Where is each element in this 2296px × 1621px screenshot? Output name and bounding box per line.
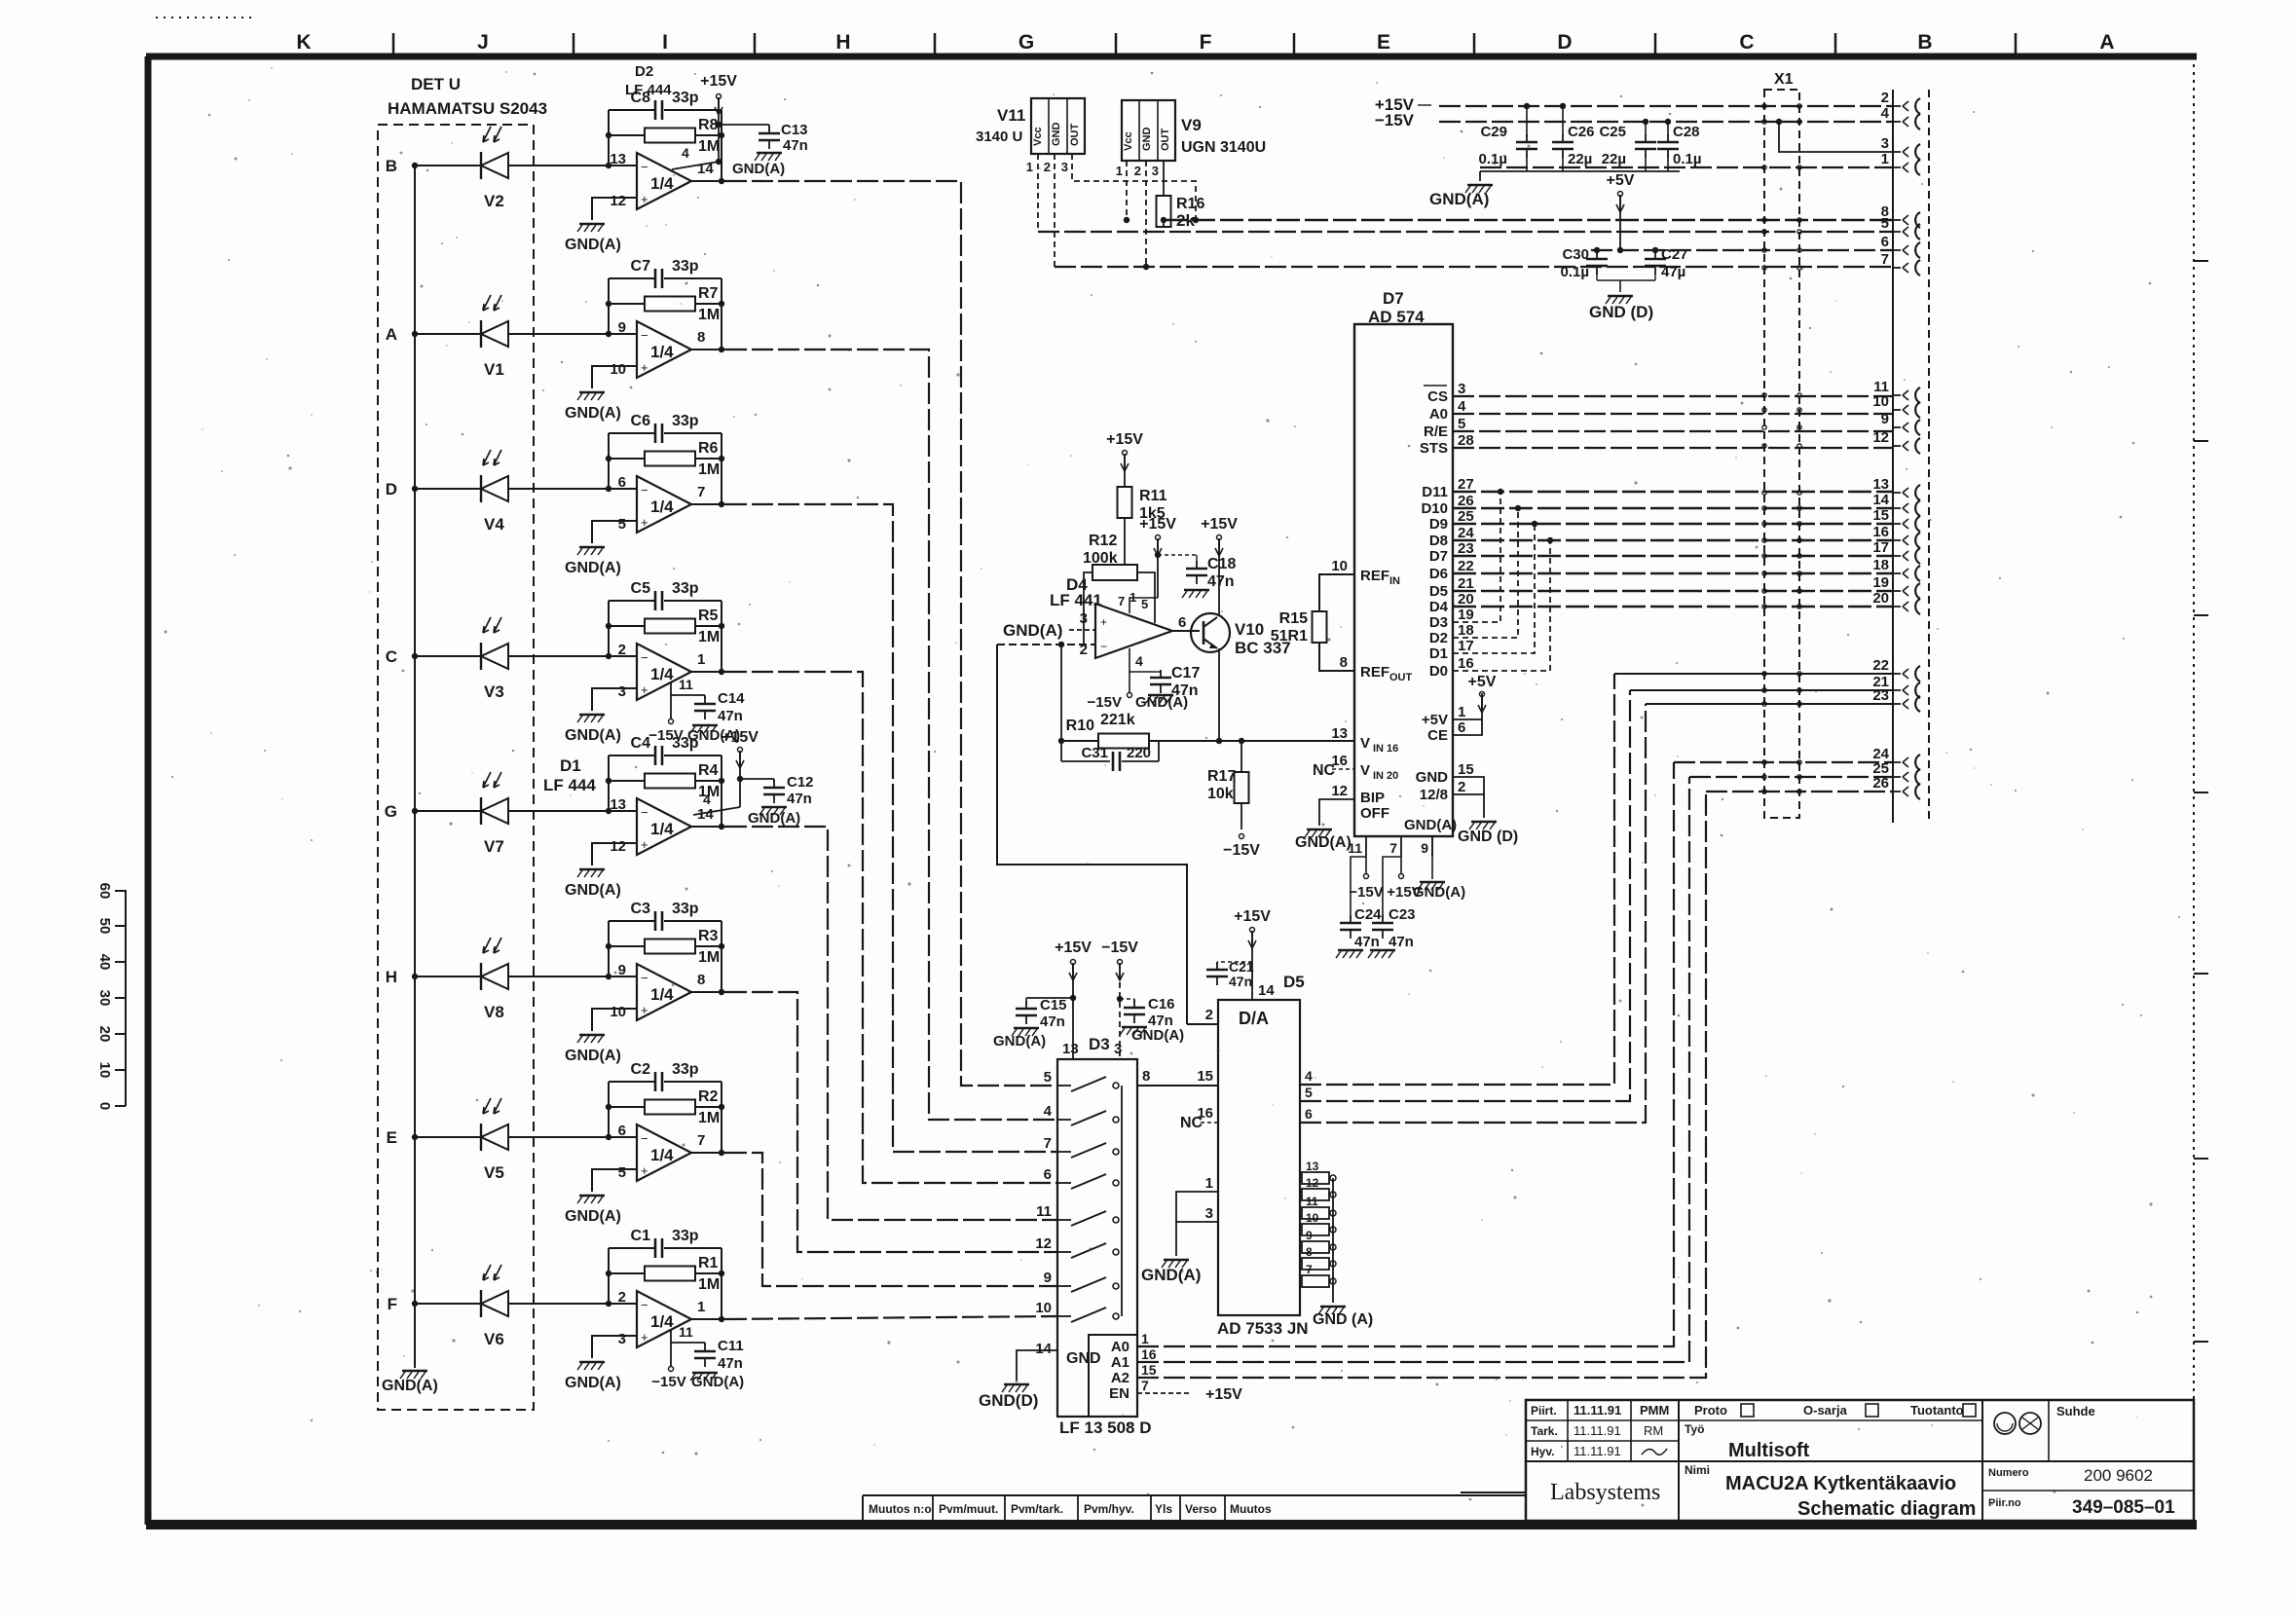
svg-text:D8: D8 — [1429, 533, 1448, 549]
svg-text:7: 7 — [697, 484, 705, 500]
ground GND(A) — [1014, 1027, 1039, 1030]
svg-text:−15V: −15V — [651, 1374, 685, 1390]
ground — [1184, 589, 1209, 592]
wire — [592, 198, 637, 220]
op-amp V4 stage — [637, 476, 691, 533]
svg-text:K: K — [296, 31, 311, 54]
svg-text:23: 23 — [1872, 687, 1889, 704]
svg-text:+: + — [641, 1163, 648, 1178]
wire V10 emitter down — [1218, 648, 1220, 741]
svg-text:2: 2 — [1044, 160, 1051, 174]
svg-text:13: 13 — [610, 151, 626, 167]
svg-text:D3: D3 — [1089, 1035, 1110, 1053]
svg-text:16: 16 — [1331, 753, 1348, 769]
svg-text:+: + — [641, 515, 648, 530]
svg-text:9: 9 — [1881, 411, 1889, 427]
power -15V stage8 — [670, 1343, 672, 1366]
svg-text:12: 12 — [1872, 429, 1889, 446]
connector X1 pin 18 — [1893, 572, 1901, 574]
svg-text:11.11.91: 11.11.91 — [1574, 1403, 1621, 1418]
svg-text:−15V: −15V — [1101, 939, 1138, 956]
bus wire to connector 23 — [1646, 703, 1893, 705]
wire output — [691, 1152, 725, 1154]
rail to connector 1 — [1480, 166, 1893, 168]
svg-text:Vcc: Vcc — [1123, 131, 1134, 151]
ground GND(A) — [579, 868, 605, 871]
svg-text:47n: 47n — [1040, 1013, 1065, 1030]
svg-text:GND(A): GND(A) — [565, 1048, 621, 1064]
svg-text:+15V: +15V — [722, 729, 759, 746]
svg-text:3: 3 — [1152, 164, 1159, 178]
svg-text:D4: D4 — [1429, 599, 1449, 615]
wire — [592, 843, 637, 866]
svg-text:11: 11 — [679, 1324, 693, 1340]
svg-text:A: A — [386, 325, 397, 344]
svg-text:1M: 1M — [698, 1276, 720, 1293]
wire — [415, 655, 481, 657]
D7 pin 7 to +15V and C23 — [1383, 857, 1401, 919]
svg-text:A0: A0 — [1429, 406, 1448, 423]
svg-text:C16: C16 — [1148, 996, 1175, 1013]
svg-text:C29: C29 — [1480, 124, 1507, 140]
svg-text:33p: 33p — [672, 1061, 699, 1078]
wire op-amp output to mux — [725, 1153, 1057, 1286]
svg-text:16: 16 — [1458, 655, 1474, 672]
svg-text:LF 444: LF 444 — [625, 82, 672, 98]
wire output — [691, 671, 725, 673]
svg-text:10: 10 — [610, 361, 626, 378]
svg-text:19: 19 — [1872, 574, 1889, 591]
connector X1 pin 11 — [1893, 394, 1901, 396]
svg-text:5: 5 — [618, 516, 626, 533]
svg-text:GND(A): GND(A) — [565, 405, 621, 422]
svg-text:R12: R12 — [1089, 533, 1117, 549]
svg-text:D2: D2 — [1429, 630, 1448, 646]
svg-text:V: V — [1360, 735, 1370, 752]
svg-text:C12: C12 — [787, 774, 814, 791]
svg-text:Hyv.: Hyv. — [1531, 1445, 1554, 1458]
svg-text:−15V: −15V — [1223, 842, 1260, 859]
svg-text:−15V: −15V — [1349, 884, 1383, 901]
svg-text:G: G — [385, 802, 397, 821]
DAC D5 AD7533JN — [1218, 1000, 1300, 1315]
svg-text:6: 6 — [1305, 1106, 1313, 1122]
svg-text:1: 1 — [1881, 151, 1889, 167]
svg-text:Pvm/tark.: Pvm/tark. — [1011, 1502, 1063, 1516]
bus wire to connector 26 — [1706, 791, 1893, 792]
ground GND(A) — [579, 714, 605, 717]
connector X1 pin 13 — [1893, 492, 1901, 494]
svg-text:1/4: 1/4 — [650, 1312, 674, 1331]
svg-text:200 9602: 200 9602 — [2084, 1466, 2153, 1485]
connector X1 pin 3 — [1893, 151, 1901, 153]
capacitor C26 22u — [1562, 106, 1564, 136]
D7 pin 11 to -15V and C24 — [1351, 857, 1366, 919]
wire — [415, 165, 481, 166]
capacitor C18 47n — [1158, 554, 1197, 556]
ground — [1370, 949, 1395, 952]
wire long loop to DAC pin 2 — [997, 645, 1187, 1024]
svg-text:V3: V3 — [484, 682, 504, 701]
capacitor C6 33p — [609, 432, 654, 434]
svg-text:4: 4 — [1135, 653, 1143, 669]
svg-text:AD 7533 JN: AD 7533 JN — [1217, 1319, 1309, 1338]
svg-text:9: 9 — [618, 962, 626, 978]
svg-text:1: 1 — [1141, 1331, 1149, 1346]
D7 pin 9 to GND(A) — [1431, 836, 1433, 879]
connector X1 pin 12 — [1893, 445, 1901, 447]
svg-text:10: 10 — [1035, 1300, 1052, 1316]
svg-text:+15V: +15V — [1106, 431, 1143, 448]
svg-text:23: 23 — [1458, 540, 1474, 557]
svg-text:−: − — [641, 483, 648, 497]
svg-text:GND(A): GND(A) — [565, 1208, 621, 1225]
svg-text:GND(A): GND(A) — [1404, 817, 1457, 833]
connector X1 pin 23 — [1893, 703, 1901, 705]
svg-text:12: 12 — [1306, 1176, 1319, 1190]
svg-text:1/4: 1/4 — [650, 343, 674, 361]
capacitor C25 22u — [1645, 122, 1647, 136]
svg-text:H: H — [386, 968, 397, 986]
svg-text:1M: 1M — [698, 307, 720, 323]
svg-text:C31: C31 — [1081, 745, 1108, 761]
svg-text:14: 14 — [1258, 982, 1275, 999]
svg-text:2: 2 — [618, 642, 626, 658]
svg-text:REF: REF — [1360, 568, 1389, 584]
wire op-amp output to mux — [725, 504, 1057, 1152]
wire V11 pin1 to bus 5 — [1037, 154, 1039, 232]
svg-text:D11: D11 — [1422, 484, 1448, 500]
svg-text:3: 3 — [1205, 1205, 1213, 1222]
svg-text:GND(A): GND(A) — [565, 882, 621, 899]
svg-text:GND(A): GND(A) — [1003, 621, 1062, 640]
photodiode V2 — [480, 152, 482, 179]
svg-text:R5: R5 — [698, 608, 719, 624]
svg-text:3: 3 — [618, 683, 626, 700]
svg-text:OUT: OUT — [1389, 672, 1413, 683]
border frame — [146, 54, 2197, 60]
svg-text:D10: D10 — [1421, 500, 1448, 517]
svg-text:D: D — [386, 480, 397, 498]
svg-text:Multisoft: Multisoft — [1728, 1440, 1810, 1461]
bus wire to connector 21 — [1630, 689, 1893, 691]
svg-text:26: 26 — [1458, 493, 1474, 509]
svg-text:3: 3 — [1458, 381, 1465, 397]
wire — [508, 1303, 637, 1305]
ground GND(A) — [579, 1361, 605, 1364]
ground GND(A) — [579, 1034, 605, 1037]
svg-text:GND(A): GND(A) — [732, 161, 785, 177]
connector X1 pin 1 — [1893, 166, 1901, 168]
svg-text:1: 1 — [1458, 704, 1465, 720]
wire V9 pin3 to R16 — [1163, 161, 1165, 196]
svg-text:−: − — [1100, 640, 1107, 653]
svg-text:V: V — [1360, 762, 1370, 779]
svg-text:2: 2 — [1134, 164, 1141, 178]
svg-text:GND(A): GND(A) — [1131, 1027, 1184, 1044]
svg-text:C26: C26 — [1568, 124, 1595, 140]
svg-text:−: − — [641, 328, 648, 343]
svg-text:27: 27 — [1458, 476, 1474, 493]
ground GND(A) — [1148, 694, 1173, 697]
svg-text:IN 16: IN 16 — [1373, 743, 1398, 755]
svg-text:C: C — [386, 647, 397, 666]
svg-text:28: 28 — [1458, 432, 1474, 449]
wire output — [691, 826, 725, 828]
svg-text:Suhde: Suhde — [2056, 1404, 2095, 1418]
svg-text:47n: 47n — [1207, 573, 1235, 590]
svg-text:C2: C2 — [631, 1061, 651, 1078]
svg-text:C6: C6 — [631, 413, 651, 429]
svg-text:C27: C27 — [1661, 246, 1688, 263]
wire feedback — [608, 433, 610, 489]
svg-text:+15V: +15V — [1201, 516, 1238, 533]
svg-text:GND (D): GND (D) — [1458, 829, 1518, 845]
svg-text:10k: 10k — [1207, 786, 1234, 802]
svg-text:14: 14 — [1872, 492, 1889, 508]
detector common bus wire — [414, 166, 416, 1368]
wire — [592, 521, 637, 543]
svg-text:1/4: 1/4 — [650, 985, 674, 1004]
connector X1 pin 20 — [1893, 606, 1901, 608]
svg-text:10: 10 — [610, 1004, 626, 1020]
resistor R7 1M — [609, 303, 645, 305]
svg-text:20: 20 — [1458, 591, 1474, 608]
capacitor C14 47n — [704, 695, 706, 698]
wire — [415, 488, 481, 490]
wire op-amp pin4 stage5 — [693, 807, 740, 815]
wire feedback — [608, 1082, 610, 1137]
capacitor C27 47u — [1654, 250, 1656, 255]
svg-text:1: 1 — [697, 651, 705, 668]
wire — [508, 165, 637, 166]
wire feedback — [608, 755, 610, 811]
svg-text:D1: D1 — [560, 756, 581, 775]
connector X1 pin 9 — [1893, 426, 1901, 428]
wire V11 pin3 jog — [1072, 154, 1196, 220]
svg-text:C14: C14 — [718, 690, 745, 707]
svg-text:33p: 33p — [672, 580, 699, 597]
svg-text:R15: R15 — [1279, 610, 1308, 627]
svg-text:+: + — [641, 1330, 648, 1345]
svg-text:C24: C24 — [1354, 906, 1382, 923]
connector X1 pin 14 — [1893, 507, 1901, 509]
bus wire to connector 25 — [1689, 776, 1893, 778]
svg-text:+5V: +5V — [1422, 712, 1448, 728]
svg-text:−: − — [641, 160, 648, 174]
svg-text:13: 13 — [1331, 725, 1348, 742]
svg-text:0: 0 — [96, 1102, 113, 1110]
svg-text:C: C — [1739, 31, 1754, 54]
resistor R3 1M — [609, 945, 645, 947]
svg-text:Numero: Numero — [1988, 1467, 2029, 1479]
svg-text:D0: D0 — [1429, 663, 1448, 680]
svg-text:10: 10 — [1306, 1211, 1319, 1225]
svg-text:6: 6 — [618, 1123, 626, 1139]
connector X1 pin 6 — [1893, 249, 1901, 251]
svg-text:+: + — [641, 360, 648, 375]
svg-text:19: 19 — [1458, 607, 1474, 623]
svg-text:+15V: +15V — [1205, 1386, 1242, 1403]
svg-text:4: 4 — [1458, 398, 1466, 415]
ground GND(A) detector — [402, 1370, 427, 1373]
ground GND(D) — [1004, 1383, 1029, 1386]
svg-text:+15V: +15V — [700, 73, 737, 90]
svg-text:5: 5 — [1881, 215, 1889, 232]
svg-text:7: 7 — [1389, 840, 1397, 856]
op-amp V3 stage — [637, 644, 691, 700]
wire V9 pin1 to bus — [1126, 161, 1128, 220]
capacitor C12 47n — [740, 778, 774, 780]
svg-text:18: 18 — [1458, 622, 1474, 639]
svg-text:GND(A): GND(A) — [565, 237, 621, 253]
svg-text:GND: GND — [1066, 1350, 1101, 1367]
svg-text:C4: C4 — [631, 735, 651, 752]
svg-text:GND(D): GND(D) — [979, 1391, 1038, 1410]
svg-text:R11: R11 — [1139, 488, 1167, 504]
svg-text:8: 8 — [1306, 1245, 1313, 1259]
svg-text:D9: D9 — [1429, 516, 1448, 533]
svg-text:IN: IN — [1389, 575, 1400, 587]
svg-text:9: 9 — [1044, 1270, 1052, 1286]
svg-text:11: 11 — [679, 677, 693, 692]
ground GND(A) — [579, 1195, 605, 1197]
svg-text:33p: 33p — [672, 1228, 699, 1244]
svg-text:V8: V8 — [484, 1003, 504, 1021]
ground GND(A) — [692, 1372, 718, 1375]
capacitor C17 47n — [1155, 671, 1161, 673]
svg-text:GND: GND — [1416, 769, 1449, 786]
svg-text:+: + — [641, 192, 648, 206]
ground GND(A) — [579, 546, 605, 549]
wire — [592, 366, 637, 388]
svg-text:1: 1 — [1205, 1175, 1213, 1192]
revision strip — [863, 1494, 1526, 1496]
wire feedback — [608, 110, 610, 166]
svg-text:+: + — [1100, 615, 1107, 629]
svg-text:6: 6 — [1178, 614, 1186, 631]
capacitor C1 33p — [609, 1247, 654, 1249]
svg-text:30: 30 — [96, 990, 113, 1007]
resistor R4 1M — [609, 780, 645, 782]
svg-text:7: 7 — [1044, 1135, 1052, 1152]
connector pin field — [1892, 90, 1894, 823]
svg-text:LF 13 508 D: LF 13 508 D — [1059, 1418, 1152, 1437]
svg-text:12/8: 12/8 — [1420, 787, 1448, 803]
svg-text:+15V: +15V — [1139, 516, 1176, 533]
svg-text:22µ: 22µ — [1568, 151, 1592, 167]
wire A0 to connector — [1137, 762, 1674, 1346]
svg-text:1/4: 1/4 — [650, 1146, 674, 1164]
svg-text:MACU2A Kytkentäkaavio: MACU2A Kytkentäkaavio — [1725, 1473, 1956, 1494]
svg-text:LF 444: LF 444 — [543, 776, 596, 794]
photodiode V7 — [480, 797, 482, 825]
svg-text:33p: 33p — [672, 413, 699, 429]
svg-text:15: 15 — [1197, 1068, 1213, 1085]
power -15V — [670, 695, 672, 718]
svg-text:3: 3 — [618, 1331, 626, 1347]
svg-text:11: 11 — [1348, 840, 1362, 856]
svg-text:3: 3 — [1114, 1041, 1122, 1057]
svg-text:1M: 1M — [698, 949, 720, 966]
op-amp V7 stage — [637, 798, 691, 855]
svg-text:10: 10 — [1872, 393, 1889, 410]
svg-text:7: 7 — [1306, 1263, 1313, 1276]
ground GND(D) — [1608, 295, 1633, 298]
svg-text:+: + — [641, 837, 648, 852]
svg-text:R7: R7 — [698, 285, 719, 302]
connector X1 pin 16 — [1893, 539, 1901, 541]
svg-text:−: − — [641, 1131, 648, 1146]
svg-text:R2: R2 — [698, 1088, 719, 1105]
svg-text:4: 4 — [1305, 1068, 1313, 1084]
connector X1 pin 7 — [1893, 267, 1901, 269]
svg-text:GND(A): GND(A) — [1135, 694, 1188, 711]
svg-text:UGN 3140U: UGN 3140U — [1181, 139, 1266, 156]
svg-text:47µ: 47µ — [1661, 264, 1685, 280]
bus wire to connector 24 — [1674, 761, 1893, 763]
svg-text:1M: 1M — [698, 629, 720, 645]
ground GND(A) — [1164, 1259, 1189, 1262]
svg-text:C1: C1 — [631, 1228, 651, 1244]
svg-text:REF: REF — [1360, 664, 1389, 681]
svg-text:0.1µ: 0.1µ — [1673, 151, 1702, 167]
svg-text:B: B — [1917, 31, 1932, 54]
svg-text:2: 2 — [618, 1289, 626, 1306]
svg-text:V4: V4 — [484, 515, 504, 534]
svg-text:3140 U: 3140 U — [976, 129, 1022, 145]
wire op-amp output to mux — [725, 992, 1057, 1252]
wire feedback loop vertical — [1060, 645, 1062, 761]
svg-text:Nimi: Nimi — [1685, 1463, 1710, 1477]
capacitor C5 33p — [609, 600, 654, 602]
ground GND(A) — [1307, 829, 1332, 831]
svg-text:R10: R10 — [1066, 718, 1094, 734]
svg-text:D7: D7 — [1429, 548, 1448, 565]
logo circles — [1994, 1413, 2016, 1434]
wire op-amp pin4 — [672, 162, 719, 169]
wire — [415, 1303, 481, 1305]
svg-text:20: 20 — [1872, 590, 1889, 607]
title block — [1461, 1492, 1526, 1493]
svg-text:I: I — [662, 31, 668, 54]
svg-text:C5: C5 — [631, 580, 651, 597]
svg-text:Yls: Yls — [1155, 1502, 1172, 1516]
svg-text:Muutos n:o: Muutos n:o — [869, 1502, 932, 1516]
svg-text:16: 16 — [1872, 524, 1889, 540]
svg-text:10: 10 — [1331, 558, 1348, 574]
svg-text:7: 7 — [697, 1132, 705, 1149]
svg-text:LF 441: LF 441 — [1050, 591, 1102, 609]
wire output — [691, 349, 725, 350]
svg-text:C21: C21 — [1229, 959, 1254, 975]
wire op-amp output to V10 base — [1172, 630, 1200, 632]
svg-text:R8: R8 — [698, 117, 719, 133]
svg-text:4: 4 — [682, 145, 689, 161]
wire output — [691, 991, 725, 993]
svg-text:22: 22 — [1872, 657, 1889, 674]
svg-text:DET U: DET U — [411, 75, 461, 93]
svg-text:5: 5 — [1044, 1069, 1052, 1086]
DAC pin 2 — [1187, 1023, 1218, 1025]
svg-text:−: − — [641, 805, 648, 820]
ground GND(A) — [1122, 1026, 1147, 1029]
svg-text:V2: V2 — [484, 192, 504, 210]
photodiode V4 — [480, 475, 482, 502]
svg-text:349–085–01: 349–085–01 — [2072, 1497, 2175, 1518]
wire feedback — [608, 278, 610, 334]
svg-text:X1: X1 — [1774, 71, 1794, 88]
